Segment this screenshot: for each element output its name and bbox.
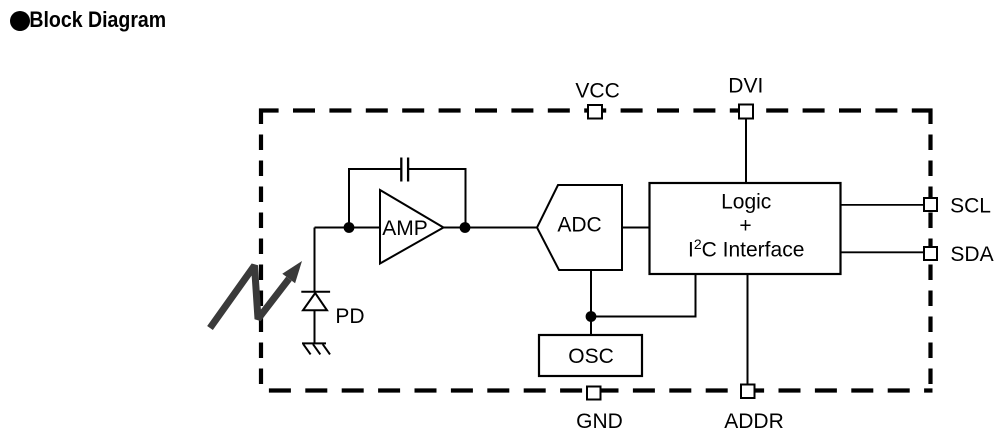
wire: Logic to SDA — [841, 251, 925, 253]
ground symbol — [302, 343, 330, 354]
node C: OSC junction dot — [586, 311, 597, 322]
wire: PD to ground — [314, 311, 316, 343]
chip boundary dashed border right — [928, 109, 932, 393]
svg-text:ADC: ADC — [557, 214, 601, 237]
chip boundary dashed border left — [259, 109, 263, 393]
svg-text:Block Diagram: Block Diagram — [29, 8, 166, 32]
svg-text:OSC: OSC — [568, 345, 614, 368]
svg-text:SDA: SDA — [950, 243, 993, 266]
photodiode PD cathode bar — [301, 291, 330, 293]
wire: feedback loop left — [349, 169, 401, 228]
svg-text:ADDR: ADDR — [724, 410, 784, 433]
wire: OSC node to Logic bottom — [591, 274, 696, 317]
pin SDA square — [924, 247, 937, 260]
pin ADDR square — [741, 385, 755, 399]
wire: ADC to Logic — [622, 227, 650, 229]
svg-text:+: + — [739, 215, 751, 238]
pin SCL square — [924, 198, 937, 211]
svg-text:GND: GND — [576, 410, 623, 433]
pin GND square — [587, 387, 601, 400]
svg-text:VCC: VCC — [575, 79, 619, 102]
pin VCC square — [588, 105, 602, 119]
pin DVI square — [739, 105, 753, 119]
svg-text:AMP: AMP — [382, 217, 428, 240]
chip boundary dashed border bottom — [259, 388, 933, 392]
wire: main signal line PD to ADC — [315, 227, 538, 229]
wire: ADC down to OSC — [590, 270, 592, 335]
photodiode PD triangle — [303, 293, 327, 310]
wire: Logic bottom to ADDR — [747, 274, 749, 386]
block Logic + I2C Interface — [650, 183, 841, 274]
block OSC — [539, 335, 642, 376]
wire: DVI to Logic top — [745, 111, 747, 183]
block ADC pentagon — [537, 185, 622, 270]
svg-text:SCL: SCL — [950, 195, 991, 218]
wire: feedback loop right — [408, 169, 466, 228]
node A: input junction dot — [344, 222, 355, 233]
svg-text:DVI: DVI — [728, 74, 763, 97]
wire: Logic to SCL — [841, 204, 925, 206]
svg-text:PD: PD — [335, 305, 364, 328]
svg-text:Logic: Logic — [721, 191, 771, 214]
light arrow zigzag — [210, 261, 302, 328]
capacitor C1 plates — [401, 158, 408, 182]
op-amp AMP triangle — [380, 190, 444, 264]
heading bullet — [10, 11, 30, 31]
chip boundary dashed border top — [259, 108, 933, 112]
wire: PD anode vertical — [314, 228, 316, 292]
node B: output junction dot — [460, 222, 471, 233]
svg-text:I2C Interface: I2C Interface — [688, 236, 804, 262]
